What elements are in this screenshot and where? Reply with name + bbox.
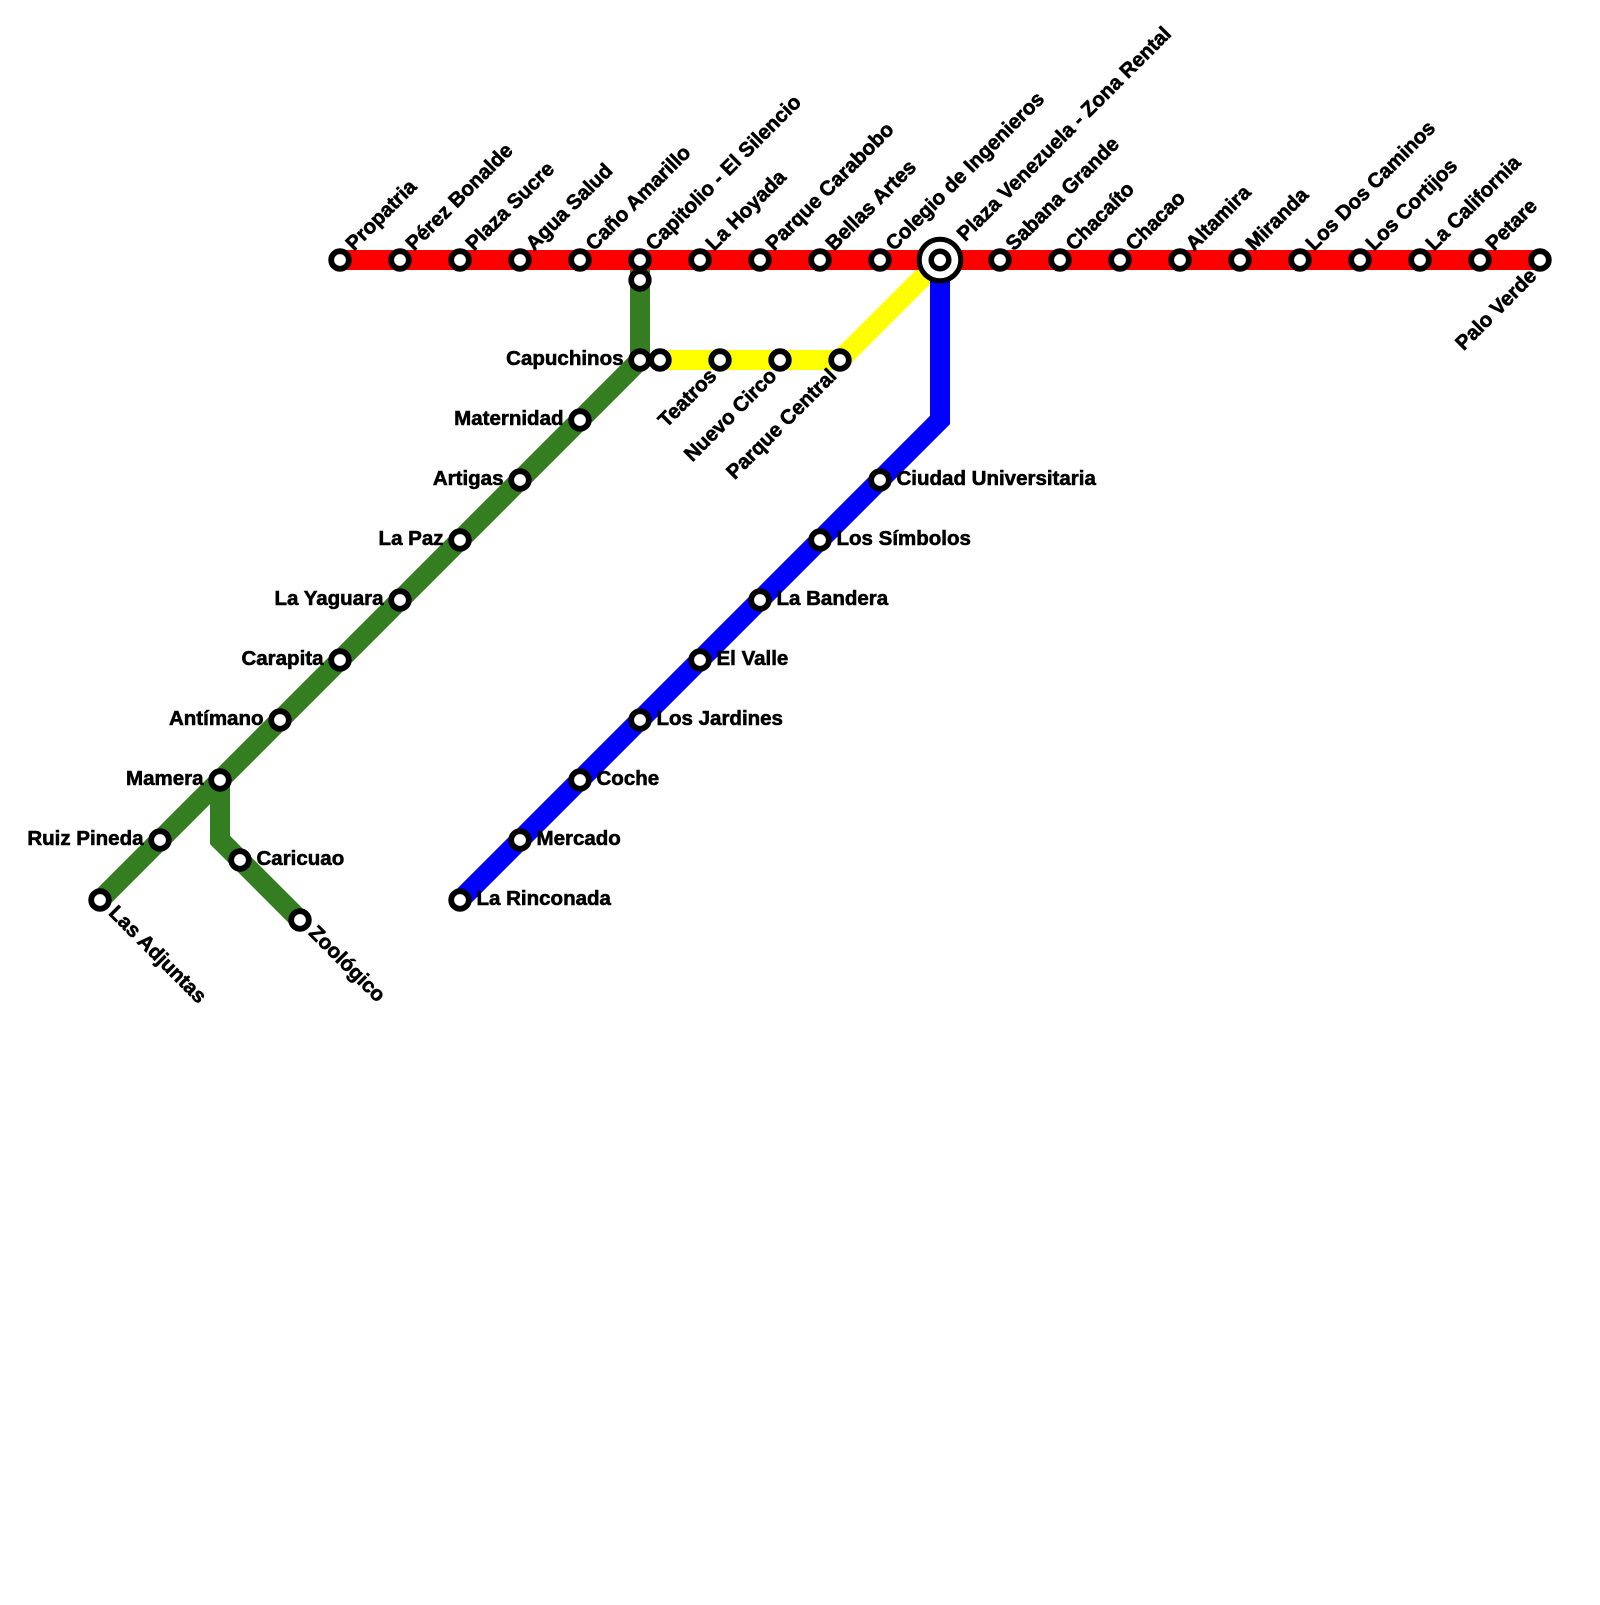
svg-text:Caricuao: Caricuao <box>257 847 345 870</box>
svg-text:Coche: Coche <box>597 767 660 790</box>
svg-text:Mercado: Mercado <box>537 827 621 850</box>
svg-text:Ruiz Pineda: Ruiz Pineda <box>27 827 144 850</box>
svg-text:Los Símbolos: Los Símbolos <box>837 527 971 550</box>
svg-text:La Bandera: La Bandera <box>777 587 889 610</box>
svg-text:El Valle: El Valle <box>717 647 789 670</box>
svg-text:Carapita: Carapita <box>241 647 324 670</box>
svg-text:Ciudad Universitaria: Ciudad Universitaria <box>897 467 1097 490</box>
svg-text:Antímano: Antímano <box>169 707 264 730</box>
svg-text:Maternidad: Maternidad <box>454 407 563 430</box>
svg-text:Capuchinos: Capuchinos <box>506 347 623 370</box>
svg-text:La Yaguara: La Yaguara <box>274 587 384 610</box>
svg-text:Los Jardines: Los Jardines <box>657 707 783 730</box>
svg-text:Mamera: Mamera <box>126 767 204 790</box>
svg-text:La Paz: La Paz <box>379 527 444 550</box>
svg-text:La Rinconada: La Rinconada <box>477 887 612 910</box>
svg-text:Artigas: Artigas <box>433 467 504 490</box>
